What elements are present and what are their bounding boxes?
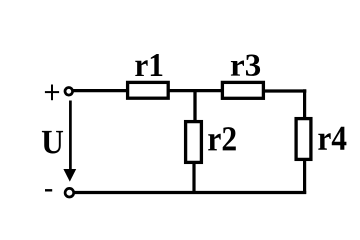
node junction wire down to r2 [193,91,196,122]
wire from r3 to top-right corner [264,89,307,92]
wire from r1 to r3 [168,89,223,92]
label r4 [318,127,346,150]
wire right vertical down to r4 [303,89,306,118]
wire from r2 down to bottom wire [192,163,195,193]
resistor r1 [128,82,169,98]
resistor r4 [296,119,311,160]
terminal + (positive, open circle) [65,88,73,96]
resistor r2 [186,122,202,163]
label r1 [135,54,162,76]
voltage arrow (downwards) [69,101,72,173]
terminal - (negative, open circle) [65,188,74,197]
bottom wire [74,191,306,194]
wire from + terminal to r1 [73,89,128,92]
label U (source voltage) [42,131,63,154]
wire from r4 down to bottom wire [303,160,306,194]
minus sign [45,189,52,191]
plus sign [45,85,59,101]
resistor r3 [222,82,263,98]
label r3 [231,55,260,76]
label r2 [208,127,236,150]
